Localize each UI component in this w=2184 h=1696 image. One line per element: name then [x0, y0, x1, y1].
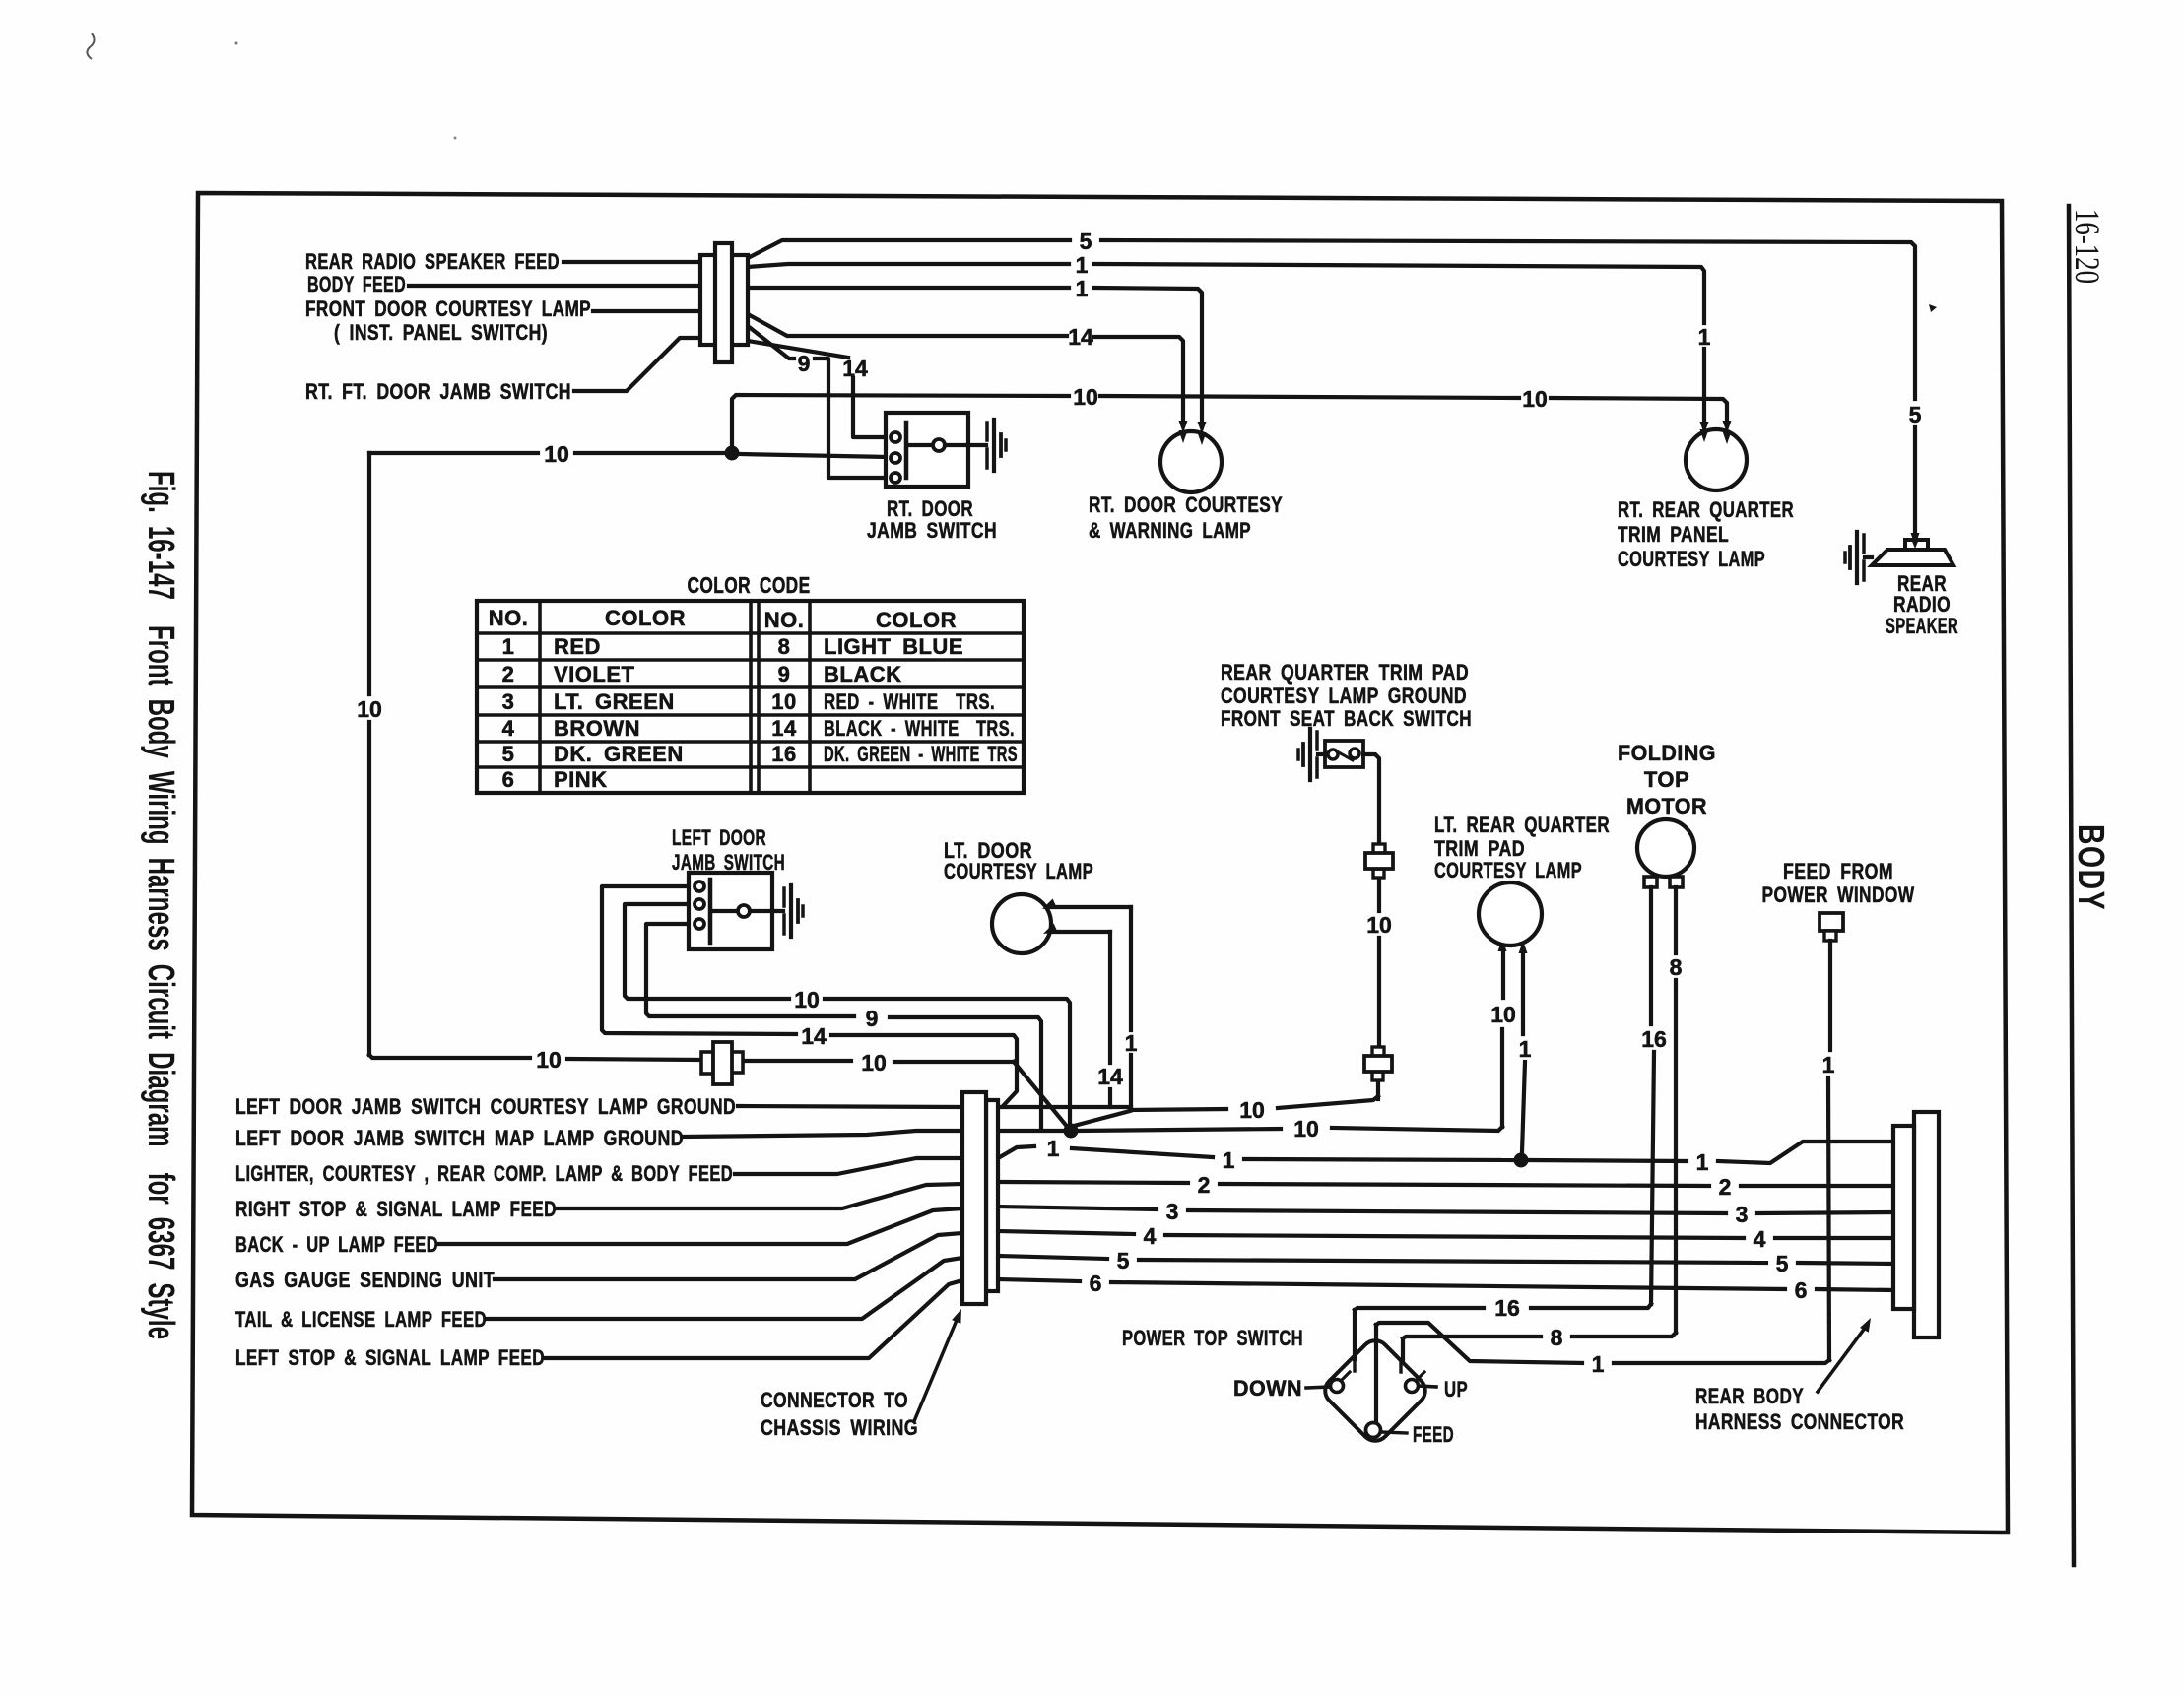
svg-text:BLACK - WHITE TRS.: BLACK - WHITE TRS.: [824, 716, 1015, 741]
svg-text:10: 10: [536, 1047, 562, 1073]
svg-text:14: 14: [1097, 1064, 1123, 1089]
svg-text:NO.: NO.: [764, 608, 805, 632]
svg-text:10: 10: [1293, 1116, 1319, 1142]
svg-text:10: 10: [1239, 1097, 1265, 1123]
svg-text:10: 10: [794, 987, 820, 1012]
svg-text:UP: UP: [1444, 1377, 1468, 1402]
svg-text:HARNESS CONNECTOR: HARNESS CONNECTOR: [1695, 1409, 1904, 1434]
svg-text:BACK - UP LAMP FEED: BACK - UP LAMP FEED: [235, 1232, 438, 1257]
svg-text:NO.: NO.: [489, 606, 529, 630]
svg-text:LIGHTER, COURTESY , REAR COMP.: LIGHTER, COURTESY , REAR COMP. LAMP & BO…: [235, 1161, 733, 1186]
svg-text:16: 16: [1494, 1295, 1520, 1321]
svg-text:LEFT STOP & SIGNAL LAMP FEED: LEFT STOP & SIGNAL LAMP FEED: [235, 1345, 545, 1370]
svg-text:COURTESY LAMP: COURTESY LAMP: [944, 859, 1093, 883]
svg-text:2: 2: [502, 662, 515, 686]
svg-text:COURTESY LAMP GROUND: COURTESY LAMP GROUND: [1221, 684, 1467, 708]
svg-text:LEFT DOOR JAMB SWITCH COURTESY: LEFT DOOR JAMB SWITCH COURTESY LAMP GROU…: [235, 1094, 736, 1119]
svg-text:Fig. 16-147 Front Body Wiring: Fig. 16-147 Front Body Wiring Harness Ci…: [140, 471, 181, 1339]
svg-text:8: 8: [1670, 954, 1683, 980]
svg-text:COLOR: COLOR: [605, 606, 686, 630]
svg-text:COURTESY LAMP: COURTESY LAMP: [1434, 858, 1582, 882]
svg-text:JAMB SWITCH: JAMB SWITCH: [867, 518, 997, 543]
svg-text:& WARNING LAMP: & WARNING LAMP: [1089, 518, 1251, 543]
svg-text:1: 1: [1076, 276, 1089, 301]
svg-text:REAR QUARTER TRIM PAD: REAR QUARTER TRIM PAD: [1221, 660, 1469, 685]
svg-text:1: 1: [1076, 252, 1089, 278]
svg-text:9: 9: [866, 1006, 879, 1031]
svg-text:3: 3: [1166, 1199, 1179, 1224]
svg-text:MOTOR: MOTOR: [1626, 794, 1707, 818]
svg-text:10: 10: [861, 1050, 887, 1076]
svg-text:FRONT DOOR COURTESY LAMP: FRONT DOOR COURTESY LAMP: [305, 296, 591, 321]
svg-text:1: 1: [1223, 1147, 1235, 1173]
svg-text:5: 5: [1117, 1248, 1130, 1273]
svg-text:5: 5: [1776, 1251, 1789, 1276]
svg-text:( INST. PANEL SWITCH): ( INST. PANEL SWITCH): [334, 320, 548, 345]
svg-text:SPEAKER: SPEAKER: [1886, 614, 1958, 638]
svg-text:4: 4: [1754, 1226, 1766, 1252]
svg-text:DK. GREEN - WHITE TRS: DK. GREEN - WHITE TRS: [824, 742, 1018, 766]
svg-text:1: 1: [502, 634, 515, 659]
svg-text:10: 10: [1366, 912, 1392, 938]
svg-text:10: 10: [1073, 384, 1098, 410]
svg-text:8: 8: [778, 634, 791, 659]
svg-text:COURTESY LAMP: COURTESY LAMP: [1618, 547, 1765, 571]
svg-text:FOLDING: FOLDING: [1618, 741, 1716, 765]
svg-text:3: 3: [1736, 1202, 1749, 1227]
svg-text:COLOR: COLOR: [876, 608, 957, 632]
svg-text:LT. GREEN: LT. GREEN: [554, 689, 675, 714]
svg-text:6: 6: [1090, 1271, 1102, 1296]
svg-text:LT. REAR QUARTER: LT. REAR QUARTER: [1434, 813, 1610, 837]
svg-text:1: 1: [1696, 1149, 1709, 1175]
svg-text:FEED: FEED: [1413, 1422, 1454, 1447]
svg-text:10: 10: [771, 689, 796, 714]
svg-text:CHASSIS WIRING: CHASSIS WIRING: [761, 1415, 918, 1440]
svg-text:1: 1: [1125, 1030, 1138, 1056]
svg-text:14: 14: [801, 1023, 827, 1049]
svg-text:6: 6: [1795, 1277, 1808, 1303]
svg-text:1: 1: [1822, 1052, 1835, 1077]
svg-text:POWER WINDOW: POWER WINDOW: [1762, 882, 1915, 907]
svg-text:14: 14: [1068, 324, 1093, 350]
svg-text:9: 9: [778, 662, 791, 686]
svg-text:BROWN: BROWN: [554, 716, 640, 741]
svg-text:TRIM PANEL: TRIM PANEL: [1618, 522, 1729, 547]
svg-text:REAR BODY: REAR BODY: [1695, 1384, 1804, 1408]
svg-text:RT. DOOR COURTESY: RT. DOOR COURTESY: [1089, 492, 1283, 517]
svg-text:DOWN: DOWN: [1233, 1376, 1302, 1401]
svg-text:PINK: PINK: [554, 767, 608, 792]
svg-text:CONNECTOR TO: CONNECTOR TO: [761, 1388, 908, 1412]
svg-text:16: 16: [1641, 1026, 1667, 1052]
svg-text:LEFT DOOR: LEFT DOOR: [672, 825, 766, 850]
svg-text:3: 3: [502, 689, 515, 714]
svg-text:14: 14: [771, 716, 797, 741]
svg-text:1: 1: [1519, 1036, 1532, 1062]
svg-text:FRONT SEAT BACK SWITCH: FRONT SEAT BACK SWITCH: [1221, 706, 1472, 731]
svg-text:REAR RADIO SPEAKER FEED: REAR RADIO SPEAKER FEED: [305, 249, 560, 274]
svg-text:GAS GAUGE SENDING UNIT: GAS GAUGE SENDING UNIT: [235, 1268, 495, 1292]
svg-text:TAIL & LICENSE LAMP FEED: TAIL & LICENSE LAMP FEED: [235, 1307, 487, 1332]
svg-text:RIGHT STOP & SIGNAL LAMP FEED: RIGHT STOP & SIGNAL LAMP FEED: [235, 1197, 557, 1221]
svg-text:1: 1: [1698, 324, 1711, 350]
svg-text:RT. REAR QUARTER: RT. REAR QUARTER: [1618, 497, 1794, 522]
svg-text:16-120: 16-120: [2068, 209, 2107, 284]
svg-text:5: 5: [1909, 402, 1922, 427]
svg-text:4: 4: [502, 716, 515, 741]
svg-text:9: 9: [798, 351, 811, 376]
svg-text:10: 10: [1490, 1002, 1516, 1027]
svg-text:POWER TOP SWITCH: POWER TOP SWITCH: [1122, 1326, 1303, 1350]
svg-text:BODY FEED: BODY FEED: [307, 272, 406, 296]
svg-text:10: 10: [357, 696, 382, 722]
svg-text:10: 10: [544, 441, 569, 467]
svg-text:DK. GREEN: DK. GREEN: [554, 742, 684, 766]
svg-text:BODY: BODY: [2070, 824, 2111, 911]
svg-text:1: 1: [1592, 1351, 1605, 1377]
svg-text:1: 1: [1047, 1136, 1060, 1161]
svg-text:BLACK: BLACK: [824, 662, 902, 686]
svg-text:RED - WHITE TRS.: RED - WHITE TRS.: [824, 689, 995, 714]
svg-text:6: 6: [502, 767, 515, 792]
svg-text:COLOR CODE: COLOR CODE: [688, 572, 811, 598]
svg-text:TOP: TOP: [1644, 767, 1689, 792]
svg-text:RED: RED: [554, 634, 601, 659]
svg-text:8: 8: [1551, 1325, 1563, 1350]
svg-text:2: 2: [1719, 1174, 1732, 1200]
svg-text:RT. FT. DOOR JAMB SWITCH: RT. FT. DOOR JAMB SWITCH: [305, 379, 571, 404]
svg-text:VIOLET: VIOLET: [554, 662, 635, 686]
svg-text:16: 16: [771, 742, 796, 766]
svg-text:FEED FROM: FEED FROM: [1783, 859, 1893, 883]
svg-text:LIGHT BLUE: LIGHT BLUE: [824, 634, 963, 659]
svg-text:2: 2: [1198, 1172, 1211, 1198]
svg-text:4: 4: [1144, 1223, 1157, 1249]
svg-text:5: 5: [502, 742, 515, 766]
svg-text:10: 10: [1522, 386, 1548, 412]
svg-text:5: 5: [1080, 228, 1092, 254]
svg-text:LEFT DOOR JAMB SWITCH MAP LAMP: LEFT DOOR JAMB SWITCH MAP LAMP GROUND: [235, 1126, 684, 1150]
